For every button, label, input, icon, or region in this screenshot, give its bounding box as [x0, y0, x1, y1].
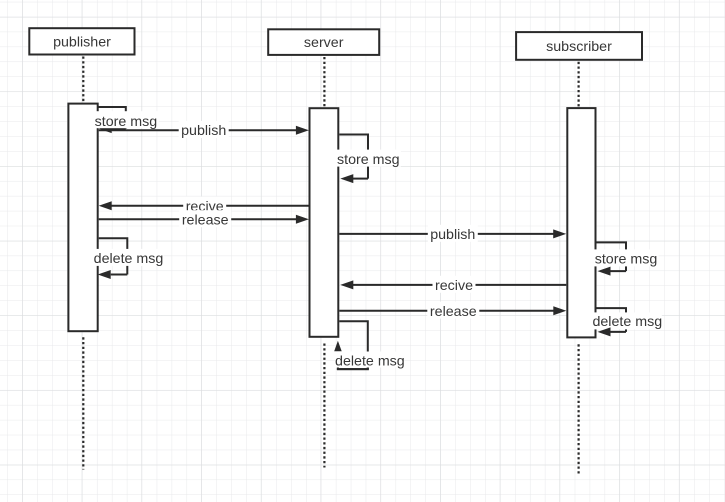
svg-text:publish: publish	[430, 227, 475, 243]
svg-text:recive: recive	[435, 278, 473, 294]
svg-text:release: release	[430, 304, 477, 320]
self message store msg (server)	[336, 135, 401, 184]
svg-text:delete msg: delete msg	[94, 251, 164, 267]
actor box subscriber	[516, 32, 642, 60]
activation bar server	[310, 108, 339, 337]
svg-text:delete msg: delete msg	[592, 314, 662, 330]
lifeline server	[323, 57, 325, 468]
self message delete msg (publisher)	[94, 238, 164, 279]
svg-text:publish: publish	[181, 123, 226, 139]
activation bar subscriber	[567, 108, 595, 337]
svg-text:store msg: store msg	[95, 114, 158, 130]
activation bar publisher	[68, 104, 97, 332]
message recive (subscriber to server)	[340, 276, 566, 294]
svg-text:publisher: publisher	[53, 34, 111, 50]
svg-text:store msg: store msg	[337, 152, 400, 168]
message publish (server to subscriber)	[339, 225, 566, 243]
message release (server to subscriber)	[339, 302, 566, 320]
svg-text:store msg: store msg	[595, 251, 658, 267]
svg-text:delete msg: delete msg	[335, 353, 405, 369]
actor box publisher	[29, 28, 134, 54]
self message delete msg (server, bottom)	[334, 321, 405, 369]
actor box server	[268, 29, 379, 55]
lifeline publisher	[82, 57, 84, 470]
message publish (publisher to server)	[99, 121, 309, 139]
message recive (server to publisher)	[99, 197, 309, 215]
self message delete msg (subscriber)	[592, 308, 662, 336]
self message store msg (subscriber)	[594, 242, 659, 275]
lifeline subscriber	[577, 62, 579, 474]
svg-text:server: server	[304, 35, 344, 51]
self message store msg (publisher)	[93, 107, 159, 133]
message release (publisher to server)	[99, 210, 309, 228]
svg-text:subscriber: subscriber	[546, 39, 612, 55]
svg-text:release: release	[182, 213, 229, 229]
